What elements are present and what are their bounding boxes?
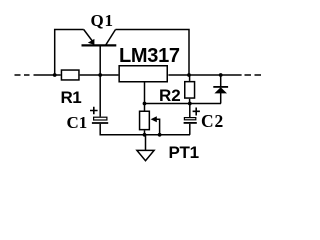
transistor Q1 emitter arrowhead <box>88 39 95 45</box>
label Q1 <box>91 11 114 31</box>
diode VD1 triangle <box>214 87 227 93</box>
potentiometer PT1 box <box>140 111 150 129</box>
diode VD1 lead to adj wire <box>220 93 222 104</box>
resistor R2 <box>185 82 195 98</box>
node C (junction dot collector/R2) <box>187 73 191 77</box>
label LM317 <box>119 45 180 68</box>
capacitor C2 bottom plate <box>184 122 197 124</box>
node F (junction dot PT1 bottom) <box>143 133 147 137</box>
wire LM317 output to rail <box>168 74 241 76</box>
ground <box>137 135 154 161</box>
wire R2 top lead <box>189 75 191 81</box>
wire dashed right lead-out <box>245 74 262 76</box>
wire C2 branch down <box>189 104 191 118</box>
wire C1 to bottom rail <box>100 124 190 135</box>
node G (junction dot wiper/rail) <box>158 133 162 137</box>
wire left rail to R1 <box>34 74 61 76</box>
diode VD1 cathode bar <box>213 86 228 88</box>
potentiometer PT1 wiper wire <box>156 119 160 135</box>
potentiometer PT1 bottom lead <box>144 130 146 134</box>
node D (junction dot diode top) <box>219 73 223 77</box>
capacitor C2 plus sign <box>193 108 200 116</box>
label PT1 <box>169 143 199 163</box>
wire adj to R2 bottom <box>145 103 222 105</box>
wire R1 to node B <box>80 74 119 76</box>
wire C1 branch down from node B <box>99 75 101 117</box>
capacitor C2 top plate <box>184 118 195 120</box>
wire C2 to bottom rail <box>189 124 191 135</box>
node B (junction dot under base) <box>98 73 102 77</box>
node A (junction dot left) <box>53 73 57 77</box>
node H (junction dot R2 bottom / C2) <box>188 102 192 106</box>
wire collector top to right vertical <box>116 30 190 76</box>
wire dashed left lead-in <box>15 74 30 76</box>
wire left vertical up and top to emitter <box>55 30 84 76</box>
wire LM317 adj pin down <box>144 83 146 111</box>
transistor Q1 collector wire <box>106 30 116 46</box>
wire R2 bottom lead <box>189 99 191 104</box>
transistor Q1 base lead down <box>99 47 101 76</box>
capacitor C1 top plate <box>94 117 107 120</box>
label C2 <box>201 111 224 132</box>
label R2 <box>159 86 181 106</box>
capacitor C1 bottom plate <box>92 122 108 124</box>
diode VD1 lead from rail <box>220 75 222 87</box>
capacitor C1 plus sign <box>90 107 98 115</box>
potentiometer PT1 wiper arrow <box>151 116 157 122</box>
label C1 <box>67 113 88 133</box>
node E (junction dot adj/PT1) <box>143 102 147 106</box>
transistor Q1 emitter wire <box>84 30 93 42</box>
label R1 <box>61 88 82 108</box>
resistor R1 <box>61 70 78 80</box>
regulator U1 LM317 box <box>119 66 167 82</box>
transistor Q1 base bar <box>82 44 117 46</box>
